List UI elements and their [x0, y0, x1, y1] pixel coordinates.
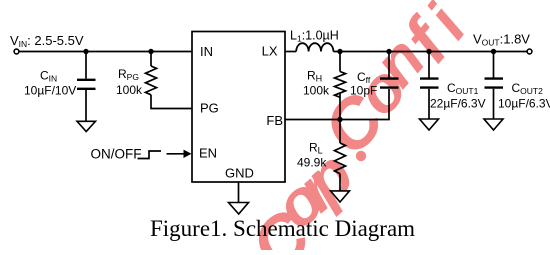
svg-text:49.9k: 49.9k [297, 156, 327, 170]
wire Cff top [388, 52, 390, 78]
inductor L1 [296, 43, 333, 51]
ground COUT1 [420, 119, 439, 130]
ground COUT2 [484, 119, 503, 130]
junction COUT1 tap [426, 49, 431, 54]
ON/OFF step symbol [138, 151, 162, 159]
junction Cff tap [386, 49, 391, 54]
wire COUT2 top [493, 52, 495, 78]
watermark period [356, 151, 366, 161]
node VIN terminal [14, 49, 19, 54]
svg-text:EN: EN [199, 146, 217, 161]
op-amp U1 regulator box [192, 32, 285, 183]
wire RH bottom [339, 93, 341, 120]
svg-text:GND: GND [225, 166, 254, 181]
svg-text:PG: PG [200, 101, 219, 116]
wire COUT1 bottom [428, 89, 430, 119]
EN arrowhead [184, 150, 192, 158]
svg-text:10µF/6.3V: 10µF/6.3V [498, 97, 550, 111]
watermark letter C (Corp) [236, 0, 480, 255]
resistor RL [335, 143, 346, 174]
wire RL bottom [339, 174, 341, 191]
junction RPG tap [148, 49, 153, 54]
svg-text:LX: LX [262, 44, 278, 59]
capacitor COUT1 [420, 79, 439, 88]
svg-text:ON/OFF: ON/OFF [91, 147, 142, 162]
svg-text:100k: 100k [116, 83, 143, 97]
wire RH top [339, 52, 341, 72]
junction RH tap [337, 49, 342, 54]
svg-text:100k: 100k [303, 84, 330, 98]
svg-text:Figure1. Schematic Diagram: Figure1. Schematic Diagram [150, 216, 415, 241]
wire VIN rail [19, 51, 192, 53]
wire RPG bottom to PG [151, 95, 192, 109]
wire CIN top [85, 52, 87, 79]
wire RL top [339, 120, 341, 144]
capacitor Cff [380, 79, 399, 88]
svg-text:10pF: 10pF [350, 84, 377, 98]
wire RPG top [150, 52, 152, 67]
wire FB rail [285, 89, 389, 120]
wire COUT2 bottom [493, 89, 495, 119]
node VOUT terminal [527, 49, 532, 54]
capacitor COUT2 [485, 79, 504, 88]
wire CIN bottom [85, 90, 87, 121]
junction COUT2 tap [491, 49, 496, 54]
ground CIN [77, 121, 96, 131]
junction CIN tap [83, 49, 88, 54]
resistor RH [335, 72, 346, 98]
junction FB divider [337, 117, 342, 122]
ground RL [331, 191, 350, 202]
capacitor CIN [77, 80, 96, 89]
svg-text:IN: IN [200, 44, 213, 59]
wire COUT1 top [428, 52, 430, 78]
wire LX rail to VOUT [333, 51, 527, 53]
svg-text:FB: FB [266, 113, 283, 128]
svg-text:22µF/6.3V: 22µF/6.3V [430, 97, 486, 111]
ground GND pin [229, 203, 249, 215]
wire EN arrow shaft [167, 153, 185, 155]
svg-text:10µF/10V: 10µF/10V [24, 84, 76, 98]
resistor RPG [146, 66, 157, 95]
wire LX to inductor [285, 51, 296, 53]
svg-text:VOUT:1.8V: VOUT:1.8V [473, 32, 530, 48]
wire GND pin [238, 182, 240, 202]
